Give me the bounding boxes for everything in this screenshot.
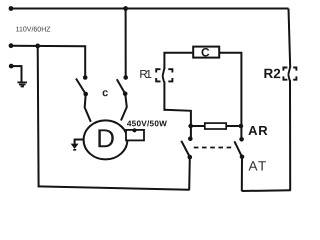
svg-text:AR: AR (248, 123, 268, 138)
svg-text:D: D (96, 123, 115, 153)
svg-text:110V/60HZ: 110V/60HZ (16, 25, 52, 33)
svg-text:450V/50W: 450V/50W (127, 119, 167, 128)
svg-text:AT: AT (249, 158, 268, 173)
svg-text:R2: R2 (264, 66, 281, 81)
svg-text:c: c (102, 87, 108, 99)
svg-text:R1: R1 (139, 69, 151, 81)
svg-text:C: C (201, 45, 210, 59)
